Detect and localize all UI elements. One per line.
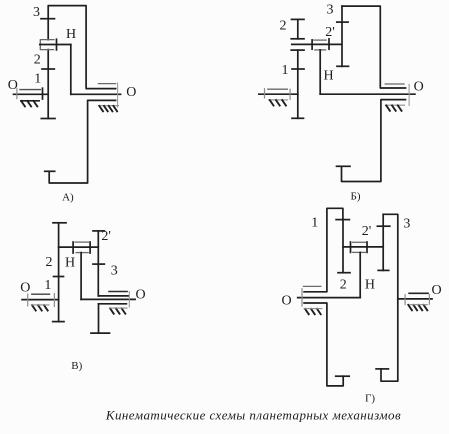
mesh 2'-3 tooth (V): [93, 263, 104, 265]
svg-text:Н: Н: [66, 27, 76, 42]
carrier hub top dash (B): [314, 39, 326, 41]
gear 2 / gear 1 column lower (B): [297, 50, 299, 118]
input ground hatch (B): [270, 100, 286, 105]
input bearing left tick (B): [264, 89, 266, 98]
planet axle (G): [343, 246, 383, 248]
right bearing top line (G): [409, 292, 428, 294]
input bearing right tick (B): [289, 89, 291, 99]
svg-text:2': 2': [101, 229, 111, 244]
left ground line (G): [304, 308, 322, 310]
svg-text:О: О: [432, 283, 442, 298]
gear 2' column (G): [382, 214, 384, 270]
carrier H box (A): [40, 40, 54, 50]
svg-text:Б): Б): [351, 191, 361, 203]
right ground line (G): [410, 304, 428, 306]
svg-text:1: 1: [282, 63, 289, 78]
gear 3 tooth bottom (B): [337, 165, 351, 167]
output ground hatch (A): [99, 106, 117, 111]
gear 3 lower support leg (V): [99, 303, 127, 305]
input bearing top line (V): [32, 293, 50, 295]
output ground line (A): [99, 105, 119, 107]
input shaft O (G): [298, 297, 361, 299]
input bearing right tick (A): [42, 88, 44, 99]
input ground line (V): [32, 304, 50, 306]
carrier hub left tick (G): [350, 242, 352, 252]
svg-text:Н: Н: [65, 256, 75, 271]
planet axle (B): [292, 43, 342, 45]
ring gear 1 lower rim (G): [304, 303, 343, 386]
right bearing right tick (G): [428, 295, 430, 305]
mesh 1-2 tooth (V): [54, 276, 64, 278]
svg-text:Г): Г): [365, 393, 375, 405]
gear 2 / gear 1 column (V): [58, 223, 60, 322]
left ground hatch (G): [305, 309, 321, 314]
gear 2 column (G): [342, 220, 344, 273]
svg-text:О: О: [20, 281, 30, 296]
svg-text:А): А): [62, 192, 74, 204]
svg-text:2': 2': [362, 224, 372, 239]
carrier hub top dash (G): [353, 241, 366, 243]
gear 3 column lower (V): [98, 304, 100, 333]
ring gear 3 rim (B): [342, 6, 406, 88]
input bearing top line (A): [20, 89, 40, 91]
gear 3 bottom tooth (V): [91, 332, 110, 334]
output ground line (V): [110, 307, 128, 309]
output bearing right tick (A): [117, 83, 119, 107]
svg-text:2: 2: [46, 255, 53, 270]
carrier hub right tick (G): [366, 242, 368, 252]
gear 1 bottom tooth (V): [53, 321, 64, 323]
gear 2' bottom tooth (G): [378, 269, 389, 271]
input bearing left tick (A): [16, 89, 18, 99]
output bearing right tick (V): [128, 292, 130, 308]
gear 2' column / ring 3 radial (B): [341, 6, 343, 66]
output shaft O (A): [71, 93, 121, 95]
left bearing tick (G): [301, 289, 303, 306]
svg-text:О: О: [135, 288, 145, 303]
planet 2 / sun 1 column (A): [47, 50, 49, 119]
carrier H arm (B): [319, 50, 321, 94]
output bearing top line (B): [385, 83, 404, 85]
svg-text:В): В): [71, 360, 82, 372]
ring gear 1 rim (G): [304, 208, 343, 291]
right bearing left tick (G): [404, 295, 406, 305]
input bearing left tick (V): [27, 294, 29, 306]
svg-text:1: 1: [34, 72, 41, 87]
carrier hub bottom dash (G): [353, 251, 367, 253]
carrier H arm vertical (A): [70, 45, 72, 95]
ring gear 3 lower rim (B): [342, 100, 406, 182]
carrier hub left tick (V): [72, 242, 74, 253]
svg-text:О: О: [414, 80, 424, 95]
svg-text:Н: Н: [365, 278, 375, 293]
carrier hub right tick (B): [328, 39, 330, 49]
svg-text:Кинематические схемы планетарн: Кинематические схемы планетарных механиз…: [105, 408, 401, 423]
mesh 1-2 tooth (A): [42, 68, 54, 70]
svg-text:2': 2': [325, 25, 335, 40]
gear 3 tooth bottom (G): [376, 368, 388, 370]
gear 1 bottom tooth (B): [292, 117, 304, 119]
carrier hub top dash (V): [75, 241, 89, 243]
output bearing top line (V): [109, 291, 127, 293]
gear 3 upper support leg (V): [98, 295, 128, 297]
carrier hub bottom dash (V): [76, 252, 88, 254]
mesh 2'-3 tooth (B): [337, 21, 348, 23]
carrier hub right tick (V): [89, 242, 91, 253]
gear 2 hub bottom dash (B): [291, 49, 304, 51]
ring gear 3 lower rim (A): [49, 100, 115, 183]
input shaft O (B): [259, 93, 298, 95]
svg-text:3: 3: [33, 5, 40, 20]
input shaft O (V): [22, 299, 59, 301]
output shaft O (B): [320, 93, 415, 95]
output ground hatch (V): [110, 308, 125, 313]
ring gear 3 rim (A): [48, 6, 115, 89]
gear 2' bottom tooth (B): [337, 65, 349, 67]
svg-text:О: О: [8, 78, 18, 93]
gear 2' / gear 3 column upper (V): [97, 231, 99, 296]
gear 2 bottom tooth (G): [338, 272, 350, 274]
gear 2 top tooth (B): [292, 18, 305, 20]
svg-text:2: 2: [340, 278, 347, 293]
gear 1 tooth bottom (G): [336, 375, 350, 377]
gear 3 mesh tooth (A): [41, 18, 55, 20]
svg-text:1: 1: [44, 278, 51, 293]
svg-text:3: 3: [111, 264, 118, 279]
svg-text:О: О: [281, 294, 291, 309]
svg-text:3: 3: [403, 217, 410, 232]
svg-text:1: 1: [311, 216, 318, 231]
carrier H arm (A): [40, 44, 71, 46]
svg-text:О: О: [126, 85, 136, 100]
planet axle (V): [59, 246, 99, 248]
sun 1 bottom tooth (A): [41, 118, 55, 120]
input ground line (A): [21, 100, 39, 102]
carrier hub left tick (B): [311, 40, 313, 49]
output bearing right tick (B): [408, 84, 410, 105]
gear 2 hub top dash (B): [291, 38, 304, 40]
right ground hatch (G): [408, 305, 427, 310]
mesh 1-2 tooth (B): [292, 68, 304, 70]
gear 3 tooth bottom (A): [45, 170, 55, 172]
input ground hatch (A): [21, 101, 37, 106]
output ground hatch (B): [386, 105, 401, 110]
left bearing top line (G): [303, 285, 320, 287]
carrier H box right tick (A): [56, 39, 58, 50]
svg-text:2: 2: [34, 53, 41, 68]
carrier H arm (G): [359, 252, 361, 297]
input bearing right tick (V): [53, 294, 55, 307]
svg-text:Н: Н: [324, 69, 334, 84]
output shaft O (V): [81, 298, 135, 300]
gear 2 top tooth (V): [53, 222, 66, 224]
input shaft O (A): [14, 93, 49, 95]
output shaft O (G): [398, 298, 432, 300]
input ground line (B): [269, 99, 288, 101]
output bearing top line (A): [98, 83, 115, 85]
svg-text:3: 3: [327, 3, 334, 18]
output ground line (B): [386, 104, 405, 106]
mesh 1-2 tooth (G): [336, 219, 349, 221]
mesh 2'-3 tooth (G): [377, 225, 389, 227]
gear 2' top tooth (V): [93, 230, 104, 232]
gear 2 column upper (B): [297, 19, 299, 38]
svg-text:2: 2: [280, 19, 287, 34]
input bearing top line (B): [268, 88, 288, 90]
carrier H arm (V): [80, 253, 82, 300]
ring gear 3 rim (G): [381, 214, 398, 381]
input ground hatch (V): [32, 305, 48, 310]
carrier hub bottom dash (B): [315, 49, 326, 51]
